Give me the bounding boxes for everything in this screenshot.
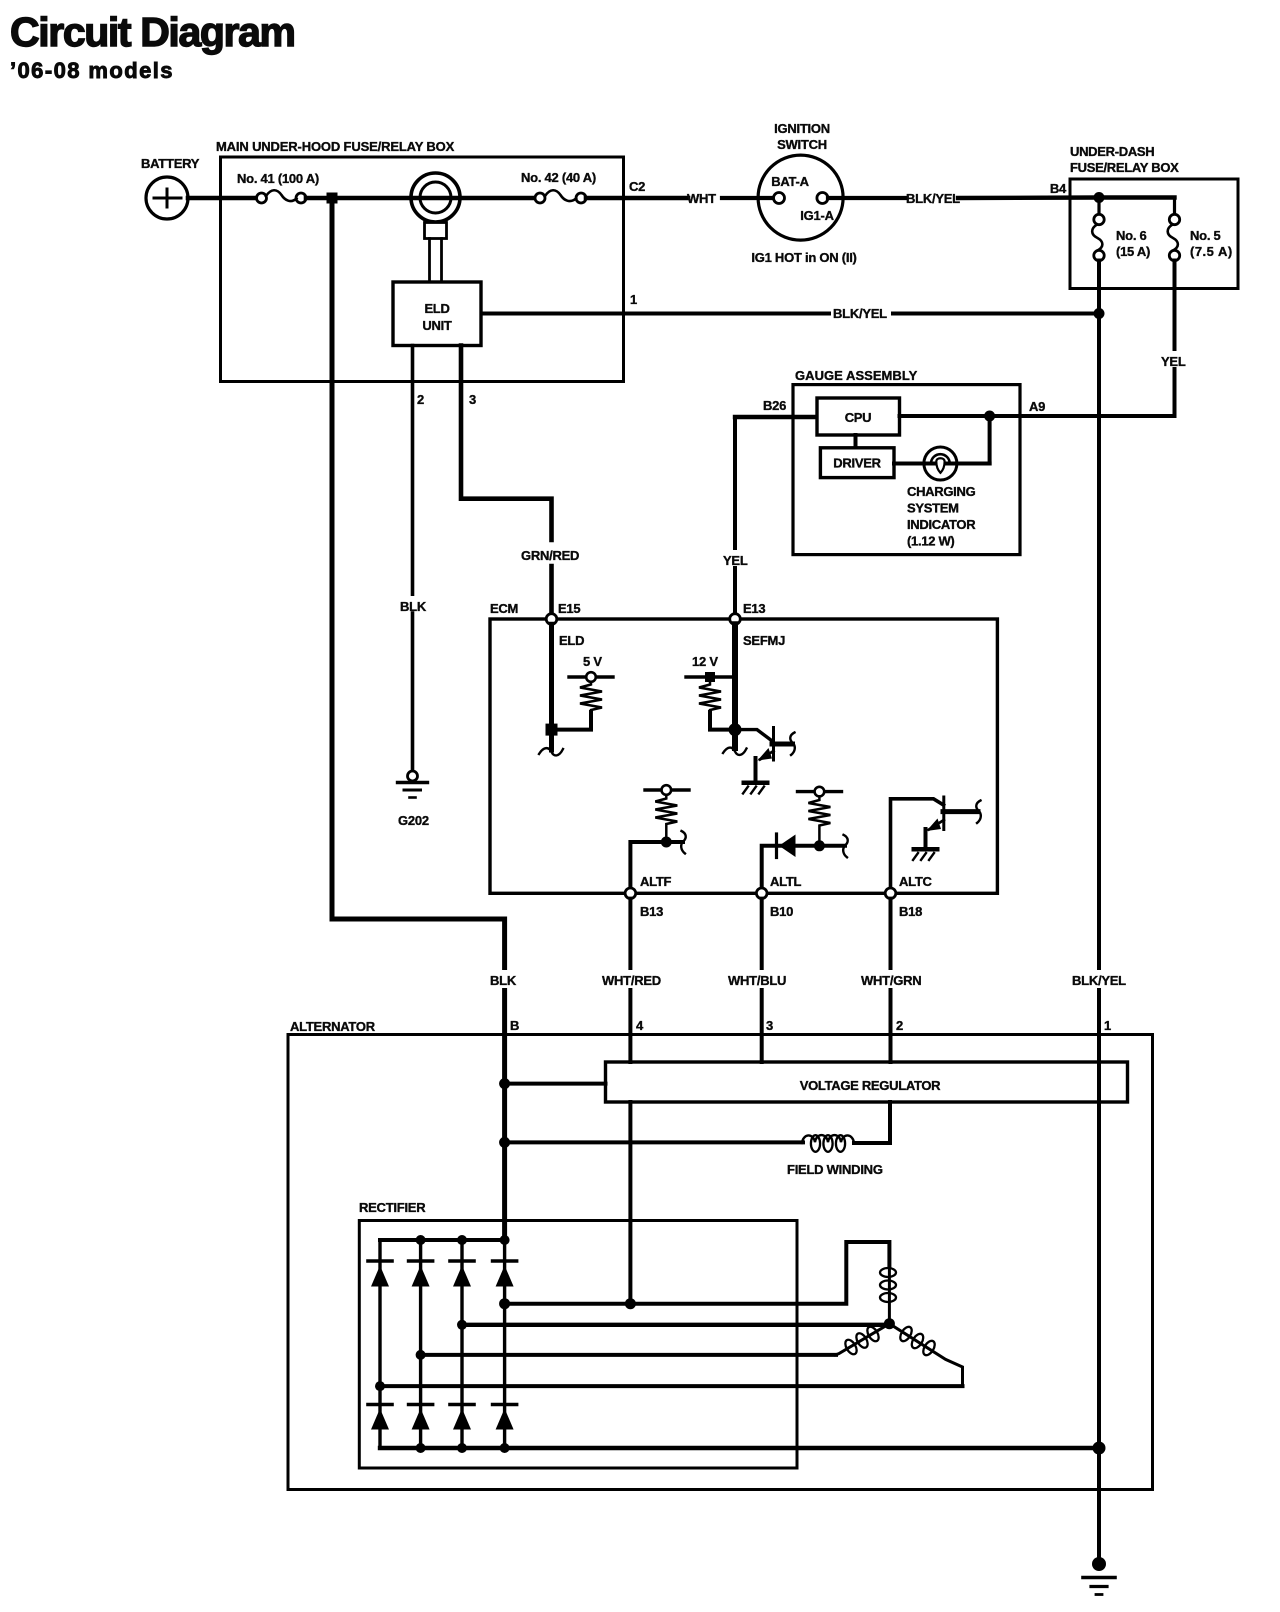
ground (Q2 emitter) bbox=[912, 847, 940, 860]
svg-text:ALTERNATOR: ALTERNATOR bbox=[290, 1019, 376, 1034]
svg-text:WHT/RED: WHT/RED bbox=[602, 973, 661, 988]
stator coil 1 bbox=[880, 1266, 896, 1318]
svg-text:5 V: 5 V bbox=[583, 654, 602, 669]
svg-text:E15: E15 bbox=[558, 601, 580, 616]
node ALTF pin B13 bbox=[625, 874, 671, 919]
node E15 bbox=[546, 601, 584, 648]
diode D7 bbox=[450, 1405, 474, 1430]
wire junction to fuse No.42 bbox=[332, 196, 535, 201]
voltage regulator bbox=[606, 1062, 1128, 1102]
wire ALTL bbox=[762, 846, 845, 888]
junction node bottom bus / BLK-YEL bbox=[1093, 1442, 1106, 1455]
node ALTC pin B18 bbox=[885, 874, 932, 919]
gauge assembly box bbox=[793, 368, 1020, 555]
svg-text:FIELD WINDING: FIELD WINDING bbox=[787, 1162, 883, 1177]
svg-text:B4: B4 bbox=[1050, 181, 1067, 196]
svg-text:YEL: YEL bbox=[723, 553, 748, 568]
svg-text:No. 41 (100 A): No. 41 (100 A) bbox=[237, 171, 319, 186]
diode D5 bbox=[368, 1405, 392, 1430]
wire CPU to DRIVER bbox=[854, 435, 858, 448]
junction node B/VR bbox=[499, 1078, 510, 1089]
svg-text:B18: B18 bbox=[899, 904, 922, 919]
ALTL circuit bbox=[798, 787, 842, 797]
resistor R3 (ALTF) bbox=[655, 795, 677, 837]
phase wire row 3 bbox=[421, 1353, 836, 1357]
diode D2 bbox=[409, 1261, 433, 1287]
wire battery to fuse No.41 bbox=[188, 196, 256, 201]
svg-text:CPU: CPU bbox=[845, 410, 872, 425]
rectifier box bbox=[359, 1200, 797, 1468]
wire DRIVER to indicator bbox=[894, 462, 990, 466]
svg-text:BLK/YEL: BLK/YEL bbox=[906, 191, 960, 206]
phase wire row 4 bbox=[380, 1384, 963, 1388]
wire ELD pin 1 BLK/YEL bbox=[481, 292, 1099, 321]
rectifier top bus bbox=[380, 1238, 505, 1242]
svg-text:VOLTAGE REGULATOR: VOLTAGE REGULATOR bbox=[800, 1078, 941, 1093]
svg-text:BLK/YEL: BLK/YEL bbox=[833, 306, 887, 321]
resistor R4 (ALTL) bbox=[808, 796, 830, 840]
diode columns bbox=[378, 1240, 381, 1448]
svg-text:B13: B13 bbox=[640, 904, 663, 919]
node ALTL pin B10 bbox=[756, 874, 801, 919]
svg-text:SYSTEM: SYSTEM bbox=[907, 501, 959, 516]
ELD pin 2 wire BLK down to G202 bbox=[399, 346, 427, 772]
svg-text:YEL: YEL bbox=[1161, 354, 1186, 369]
svg-text:No. 42 (40 A): No. 42 (40 A) bbox=[521, 170, 596, 185]
ground (Q1 emitter) bbox=[742, 781, 770, 794]
svg-text:BLK: BLK bbox=[490, 973, 517, 988]
wire color labels bbox=[487, 970, 1131, 988]
fuse No.5 (7.5 A) bbox=[1168, 198, 1232, 261]
wire YEL from fuse No.5 down to A9 bbox=[1158, 261, 1189, 417]
svg-text:WHT: WHT bbox=[687, 191, 716, 206]
wire pin4 resumes below VR bbox=[628, 1102, 632, 1302]
svg-text:ALTC: ALTC bbox=[899, 874, 933, 889]
wire YEL gauge to E13 bbox=[721, 417, 749, 614]
svg-text:12 V: 12 V bbox=[692, 654, 718, 669]
wire fuse No.41 to junction bbox=[306, 196, 332, 201]
CPU bbox=[817, 398, 900, 435]
svg-text:ELD: ELD bbox=[424, 301, 449, 316]
fuse No.42 (40 A) bbox=[521, 170, 596, 203]
wire B26 to CPU bbox=[735, 415, 817, 419]
svg-text:C2: C2 bbox=[629, 179, 645, 194]
svg-text:INDICATOR: INDICATOR bbox=[907, 517, 976, 532]
svg-text:No. 5: No. 5 bbox=[1190, 228, 1221, 243]
ALTF circuit bbox=[645, 785, 689, 795]
svg-text:E13: E13 bbox=[743, 601, 765, 616]
svg-text:IG1-A: IG1-A bbox=[800, 208, 834, 223]
wire CPU to A9 bbox=[900, 414, 1175, 418]
wire indicator to A9 line bbox=[988, 416, 992, 464]
ignition switch bbox=[751, 121, 856, 265]
svg-text:IGNITION: IGNITION bbox=[774, 121, 830, 136]
node E13 bbox=[730, 601, 785, 648]
resistor R1 (5V pull-up) bbox=[557, 682, 602, 730]
stator coil 3 bbox=[889, 1324, 962, 1386]
phase wire row 1 bbox=[505, 1242, 890, 1304]
svg-text:BAT-A: BAT-A bbox=[771, 174, 809, 189]
wire end curl ELD bbox=[539, 748, 563, 755]
wire BLK/YEL ignition to under-dash box bbox=[828, 196, 906, 200]
junction node pin1/BLK-YEL bbox=[1094, 308, 1105, 319]
svg-text:UNDER-DASH: UNDER-DASH bbox=[1070, 144, 1154, 159]
diode D4 bbox=[493, 1261, 517, 1287]
svg-text:1: 1 bbox=[1104, 1018, 1111, 1033]
resistor R2 (12V pull-up) bbox=[699, 682, 730, 730]
stator coil 2 bbox=[836, 1324, 890, 1356]
svg-text:GAUGE ASSEMBLY: GAUGE ASSEMBLY bbox=[795, 368, 918, 383]
svg-text:(7.5 A): (7.5 A) bbox=[1190, 244, 1232, 259]
svg-text:WHT/GRN: WHT/GRN bbox=[861, 973, 921, 988]
under-dash fuse/relay box bbox=[1050, 144, 1238, 289]
alternator box bbox=[288, 1019, 1153, 1490]
svg-text:B26: B26 bbox=[763, 398, 786, 413]
wire end curl ALTF bbox=[681, 831, 686, 854]
junction node indicator/A9 bbox=[984, 411, 995, 422]
field winding bbox=[505, 1102, 890, 1177]
svg-text:Circuit Diagram: Circuit Diagram bbox=[10, 9, 295, 55]
grommet / ELD current sensor loop bbox=[411, 173, 460, 282]
svg-text:A9: A9 bbox=[1029, 399, 1045, 414]
svg-text:3: 3 bbox=[766, 1018, 773, 1033]
wire end curl SEFMJ bbox=[723, 748, 747, 755]
diode D6 bbox=[409, 1405, 433, 1430]
svg-text:ALTF: ALTF bbox=[640, 874, 672, 889]
ELD pin 3 wire GRN/RED to ECM E15 bbox=[461, 346, 579, 615]
svg-text:GRN/RED: GRN/RED bbox=[521, 548, 579, 563]
12V supply bbox=[686, 654, 732, 682]
svg-text:MAIN UNDER-HOOD FUSE/RELAY BOX: MAIN UNDER-HOOD FUSE/RELAY BOX bbox=[216, 139, 455, 154]
svg-text:2: 2 bbox=[896, 1018, 903, 1033]
junction node SEFMJ/12V bbox=[729, 723, 742, 736]
stator center node bbox=[884, 1318, 895, 1329]
diode D1 bbox=[368, 1261, 392, 1287]
svg-text:UNIT: UNIT bbox=[422, 318, 451, 333]
svg-text:BLK/YEL: BLK/YEL bbox=[1072, 973, 1126, 988]
fuse No.6 (15 A) bbox=[1092, 198, 1150, 261]
rectifier bottom bus to BLK/YEL bbox=[380, 1446, 1099, 1450]
wire BLK/YEL main vertical down to alternator pin 1 bbox=[1097, 314, 1101, 1564]
svg-text:(15 A): (15 A) bbox=[1116, 244, 1150, 259]
svg-text:2: 2 bbox=[417, 392, 424, 407]
wire ALTF bbox=[630, 842, 683, 888]
junction node B/field bbox=[499, 1137, 510, 1148]
ECM box bbox=[490, 601, 997, 893]
svg-text:B10: B10 bbox=[770, 904, 793, 919]
svg-text:WHT/BLU: WHT/BLU bbox=[728, 973, 786, 988]
svg-text:No. 6: No. 6 bbox=[1116, 228, 1147, 243]
junction node at battery feed bbox=[327, 193, 338, 204]
transistor Q1 (SEFMJ driver) bbox=[741, 728, 795, 781]
svg-text:1: 1 bbox=[630, 292, 637, 307]
wire ALTC bbox=[891, 799, 944, 888]
charging system indicator lamp bbox=[907, 447, 976, 549]
wire B13 to alternator pin 4 (WHT/RED) bbox=[628, 899, 632, 1062]
svg-text:SEFMJ: SEFMJ bbox=[743, 633, 785, 648]
svg-text:(1.12 W): (1.12 W) bbox=[907, 534, 954, 549]
svg-text:DRIVER: DRIVER bbox=[833, 456, 881, 471]
wire B10 to alternator pin 3 (WHT/BLU) bbox=[760, 899, 764, 1062]
ground G202 bbox=[398, 771, 429, 828]
svg-text:3: 3 bbox=[469, 392, 476, 407]
alternator pin labels bbox=[510, 1018, 1111, 1033]
svg-text:B: B bbox=[510, 1018, 519, 1033]
diode D3 bbox=[450, 1261, 474, 1287]
5V supply bbox=[569, 654, 613, 682]
svg-text:4: 4 bbox=[636, 1018, 644, 1033]
wire BLK battery junction down to alternator B bbox=[332, 198, 505, 1240]
svg-text:ALTL: ALTL bbox=[770, 874, 802, 889]
junction nodes top bus bbox=[416, 1235, 426, 1245]
node B4 junction bbox=[1094, 192, 1105, 203]
wire BLK/YEL from fuse No.6 down bbox=[1097, 261, 1101, 314]
main under-hood fuse/relay box bbox=[216, 139, 624, 382]
junction node ALTF bbox=[661, 837, 672, 848]
wire SEFMJ line inside ECM bbox=[732, 624, 738, 748]
ELD unit bbox=[393, 282, 481, 346]
diode D9 (ALTL) bbox=[777, 834, 796, 858]
DRIVER bbox=[820, 448, 894, 478]
svg-text:G202: G202 bbox=[398, 813, 429, 828]
wire inside under-dash box to fuse No.5 bbox=[1099, 195, 1175, 199]
junction node ALTL bbox=[814, 840, 825, 851]
fuse No.41 (100 A) bbox=[237, 171, 319, 203]
diode D8 bbox=[493, 1405, 517, 1430]
svg-text:FUSE/RELAY BOX: FUSE/RELAY BOX bbox=[1070, 160, 1179, 175]
wire ELD sense line inside ECM bbox=[549, 624, 554, 750]
svg-text:BATTERY: BATTERY bbox=[141, 156, 200, 171]
svg-text:RECTIFIER: RECTIFIER bbox=[359, 1200, 426, 1215]
svg-text:ELD: ELD bbox=[559, 633, 584, 648]
ground G203 (battery negative) bbox=[1083, 1557, 1115, 1595]
phase wire row 2 (to stator center) bbox=[462, 1323, 888, 1327]
wire end curl ALTL bbox=[843, 835, 848, 858]
wire fuse No.42 to C2 and WHT to ignition switch bbox=[586, 196, 688, 201]
svg-text:ECM: ECM bbox=[490, 601, 518, 616]
wire B18 to alternator pin 2 (WHT/GRN) bbox=[889, 899, 893, 1062]
svg-text:IG1 HOT in ON (II): IG1 HOT in ON (II) bbox=[751, 250, 856, 265]
junction node ELD/5V bbox=[546, 724, 558, 736]
wire B column to voltage regulator bbox=[505, 1082, 606, 1086]
svg-text:CHARGING: CHARGING bbox=[907, 484, 976, 499]
transistor Q2 (ALTC) bbox=[926, 797, 981, 847]
svg-text:’06-08 models: ’06-08 models bbox=[10, 58, 172, 83]
svg-text:SWITCH: SWITCH bbox=[777, 137, 827, 152]
battery B1 bbox=[141, 156, 200, 219]
